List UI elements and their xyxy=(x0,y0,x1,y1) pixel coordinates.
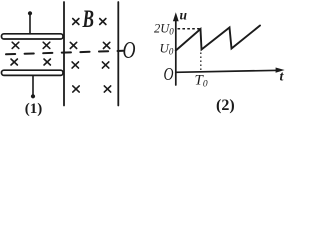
dotted drop line to T0 xyxy=(200,53,202,71)
graph u axis xyxy=(175,17,177,85)
svg-text:t: t xyxy=(280,69,285,84)
flux x field row1 left xyxy=(73,19,79,25)
flux x field row2 left xyxy=(70,42,76,48)
graph t axis arrowhead xyxy=(276,68,285,73)
capacitor top plate xyxy=(2,34,64,39)
flux x between plates upper-right xyxy=(43,42,50,48)
flux x field row2 right xyxy=(103,42,109,48)
svg-text:(2): (2) xyxy=(216,97,235,114)
flux x field row3 left xyxy=(72,62,78,68)
svg-text:T0: T0 xyxy=(195,73,208,90)
wire top lead xyxy=(29,15,31,34)
capacitor bottom plate xyxy=(2,70,64,75)
flux x between plates upper-left xyxy=(12,42,19,48)
svg-text:O: O xyxy=(123,37,136,64)
dashed center axis line to O xyxy=(6,51,123,55)
dashed level line 2U0 xyxy=(178,28,201,30)
flux x field row4 right xyxy=(104,86,110,92)
field region boundary right xyxy=(117,2,119,106)
wire bottom lead xyxy=(32,75,34,95)
svg-text:B: B xyxy=(82,4,94,33)
graph u axis arrowhead xyxy=(173,12,179,21)
field region boundary left xyxy=(63,2,65,106)
flux x field row1 right xyxy=(100,19,106,25)
terminal dot bottom xyxy=(31,94,35,98)
svg-text:2U0: 2U0 xyxy=(154,22,174,37)
graph t axis xyxy=(176,70,280,72)
svg-text:u: u xyxy=(180,8,188,23)
flux x field row3 right xyxy=(102,62,108,68)
svg-text:(1): (1) xyxy=(25,101,43,117)
flux x between plates lower-right xyxy=(44,59,50,65)
svg-text:O: O xyxy=(164,64,174,84)
flux x between plates lower-left xyxy=(11,59,17,65)
svg-text:U0: U0 xyxy=(160,40,174,56)
terminal dot top xyxy=(28,11,32,15)
flux x field row4 left xyxy=(73,86,79,92)
sawtooth voltage waveform xyxy=(176,26,260,51)
